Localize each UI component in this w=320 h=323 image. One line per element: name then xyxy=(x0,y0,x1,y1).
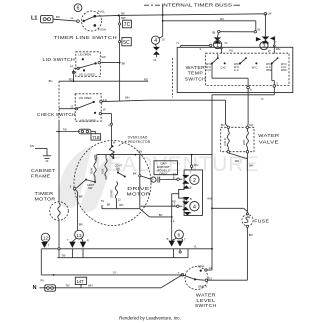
svg-text:BR: BR xyxy=(79,194,83,198)
fuse F1 xyxy=(242,213,269,228)
svg-text:B: B xyxy=(173,176,175,180)
cam switch 2 xyxy=(173,171,199,190)
svg-text:LID OPEN: LID OPEN xyxy=(78,53,91,57)
timer motor coil xyxy=(58,203,60,219)
svg-text:TW: TW xyxy=(61,254,66,258)
svg-text:7A: 7A xyxy=(224,41,227,45)
aux winding xyxy=(100,155,107,180)
svg-text:AUX: AUX xyxy=(100,168,104,174)
svg-text:PU: PU xyxy=(229,48,233,52)
water temp switch label xyxy=(185,65,206,81)
svg-text:BR: BR xyxy=(79,223,83,227)
svg-text:TEMP: TEMP xyxy=(188,71,204,76)
cabinet frame label xyxy=(31,168,56,179)
svg-text:13: 13 xyxy=(209,276,212,280)
BU drop to valve xyxy=(221,100,228,127)
timer line switch (dashed circle) xyxy=(82,11,102,31)
svg-text:LW: LW xyxy=(268,12,272,16)
svg-text:B: B xyxy=(190,186,192,190)
svg-text:LID SWITCH: LID SWITCH xyxy=(43,57,76,62)
svg-text:GN: GN xyxy=(30,144,34,148)
5B link wire xyxy=(212,27,261,34)
svg-text:3: 3 xyxy=(263,44,266,50)
check switch box xyxy=(75,94,101,121)
motor left node BR xyxy=(70,184,83,230)
svg-text:YL: YL xyxy=(194,245,198,249)
lid switch contacts xyxy=(72,53,106,77)
centrifugal switch lower xyxy=(76,179,96,191)
svg-text:BK: BK xyxy=(159,213,163,217)
svg-text:14T: 14T xyxy=(77,279,85,284)
water valve box xyxy=(221,127,254,151)
svg-text:2: 2 xyxy=(193,178,196,184)
wire into fuse from V1 xyxy=(211,207,247,211)
wire RD 2.2 feed xyxy=(141,205,177,207)
cam switch 6 (bottom) xyxy=(167,230,186,247)
svg-text:12: 12 xyxy=(153,58,156,62)
cam switch 13 (bottom) xyxy=(67,230,89,248)
svg-text:DRIVE: DRIVE xyxy=(127,186,150,191)
temp switch internal wiring to node 6 xyxy=(212,63,248,86)
svg-text:WH: WH xyxy=(249,164,254,168)
svg-text:W-C: W-C xyxy=(252,65,257,69)
water valve label xyxy=(258,133,279,144)
svg-text:GN: GN xyxy=(249,123,253,127)
svg-text:B: B xyxy=(190,197,192,201)
svg-text:Rendered by Leadventure, Inc.: Rendered by Leadventure, Inc. xyxy=(119,315,181,320)
terminal box 5C xyxy=(119,38,132,46)
svg-text:3.2: 3.2 xyxy=(171,219,175,223)
svg-text:PROTECTOR: PROTECTOR xyxy=(128,140,151,144)
svg-text:VALVE: VALVE xyxy=(259,139,279,144)
svg-text:TIMER: TIMER xyxy=(35,191,54,196)
svg-text:TIMER LINE SWITCH: TIMER LINE SWITCH xyxy=(54,35,117,40)
svg-text:LID CLOSED: LID CLOSED xyxy=(79,73,95,77)
BU feeder wire xyxy=(162,17,256,32)
bus line B xyxy=(57,254,188,258)
wire lid switch pivot left and down xyxy=(70,64,77,82)
diagonal wire pivot to bottom bus xyxy=(161,275,182,288)
svg-text:71B: 71B xyxy=(92,135,100,140)
svg-text:7C: 7C xyxy=(124,22,131,28)
wire RD below lid switch xyxy=(59,77,148,81)
run winding xyxy=(89,155,96,182)
temp switch contact set xyxy=(206,54,287,72)
hot solenoid xyxy=(242,126,248,153)
timer motor feed wires xyxy=(58,132,60,258)
svg-text:5b: 5b xyxy=(257,27,260,31)
drive motor dashed circle xyxy=(74,141,151,226)
cam 4 contact triangles xyxy=(153,44,160,62)
motor frame right edge xyxy=(139,155,141,209)
svg-text:3T: 3T xyxy=(268,49,271,53)
svg-text:N: N xyxy=(33,285,37,291)
svg-text:PU: PU xyxy=(40,278,44,282)
junction node xyxy=(118,14,120,16)
svg-text:WH: WH xyxy=(194,163,199,167)
svg-text:C=C: C=C xyxy=(206,68,212,72)
svg-text:C=C: C=C xyxy=(221,65,227,69)
water temp switch contact box (dashed) xyxy=(206,53,289,85)
water level switch contacts xyxy=(178,264,213,289)
svg-text:4: 4 xyxy=(154,38,157,44)
capacitor C1 xyxy=(151,172,177,182)
node 6 (temp switch bottom) xyxy=(247,86,252,91)
V1 long vertical YL xyxy=(207,87,274,270)
svg-text:LID OPEN: LID OPEN xyxy=(79,96,92,100)
wire BK 3.2 feed xyxy=(140,209,175,223)
motor BK terminal node xyxy=(133,172,141,177)
node under cam 6 xyxy=(179,249,181,253)
cam switch 4 (top) xyxy=(151,36,165,44)
inter-cam contact triangles xyxy=(183,185,190,200)
svg-text:BK: BK xyxy=(133,172,137,176)
valve output merge WH xyxy=(228,153,253,213)
fuse output wire BR xyxy=(208,228,253,281)
motor small labels xyxy=(101,197,124,207)
svg-text:RD: RD xyxy=(119,203,123,207)
svg-text:WH: WH xyxy=(125,96,130,100)
svg-text:TU: TU xyxy=(101,199,105,203)
node 5 (temp switch bottom) xyxy=(273,82,279,88)
WH wire from check switch to valve drop xyxy=(102,96,225,102)
check switch contacts xyxy=(75,96,107,123)
terminal box 71B xyxy=(91,134,101,140)
svg-text:MOTOR: MOTOR xyxy=(127,192,151,197)
wire L1 to timer line switch, BK xyxy=(53,15,77,21)
timer motor dashed circle xyxy=(50,202,69,221)
svg-text:12: 12 xyxy=(118,197,121,201)
svg-text:RD: RD xyxy=(144,77,148,81)
svg-text:W/W: W/W xyxy=(281,68,287,72)
start winding xyxy=(109,181,117,208)
svg-text:B: B xyxy=(167,237,169,241)
bus drop vertical to cam 4 xyxy=(162,5,164,36)
wire check switch lower contact, YL xyxy=(102,114,116,147)
cabinet frame ground symbol xyxy=(43,156,51,161)
timer line switch contacts PULL/PUSH xyxy=(83,10,106,32)
svg-text:BK: BK xyxy=(56,15,60,19)
terminal box 7C xyxy=(119,20,132,28)
node L1 terminal xyxy=(77,20,80,23)
svg-text:WH: WH xyxy=(235,159,240,163)
svg-text:CHECK SWITCH: CHECK SWITCH xyxy=(37,112,76,117)
connector P2 xyxy=(45,285,56,291)
watermark leaf logo xyxy=(59,145,115,212)
water level switch label xyxy=(195,293,217,308)
svg-text:13: 13 xyxy=(209,266,212,270)
terminal box 14T xyxy=(75,277,86,288)
svg-text:FRAME: FRAME xyxy=(31,174,51,179)
bus line B legs xyxy=(72,249,188,258)
left drop from bus A xyxy=(40,249,44,283)
water level switch dashed circle xyxy=(185,267,208,290)
svg-text:L1: L1 xyxy=(31,16,37,22)
svg-text:RUN: RUN xyxy=(89,168,93,174)
svg-text:ONLY: ONLY xyxy=(159,172,167,176)
svg-text:START: START xyxy=(109,189,113,198)
svg-text:WH: WH xyxy=(207,197,212,201)
svg-text:INTERNAL TIMER BUSS: INTERNAL TIMER BUSS xyxy=(162,2,233,7)
svg-text:WATER: WATER xyxy=(258,133,279,138)
svg-text:RD: RD xyxy=(69,77,73,81)
cold solenoid xyxy=(223,126,229,153)
svg-text:YL: YL xyxy=(108,124,112,128)
block top node WH xyxy=(190,154,198,170)
svg-text:FUSE: FUSE xyxy=(254,218,269,223)
svg-text:SWITCH: SWITCH xyxy=(195,303,217,308)
wire W1 to LW node xyxy=(119,14,266,16)
svg-text:+: + xyxy=(152,178,154,182)
cam switch 12 (bottom) xyxy=(41,233,50,248)
bus line C GY xyxy=(41,270,181,275)
connector P1 xyxy=(41,15,54,22)
svg-text:EMPTY: EMPTY xyxy=(198,285,207,289)
wire check switch pivot to BU drop, 12 xyxy=(59,104,75,108)
bus line A xyxy=(41,245,213,250)
svg-text:W/W: W/W xyxy=(266,68,272,72)
vertical feed to bottom cam 6 xyxy=(172,194,179,241)
svg-text:CABINET: CABINET xyxy=(31,168,56,173)
svg-text:BK: BK xyxy=(122,61,126,65)
centrifugal switch upper xyxy=(115,163,126,177)
cam switch 1 cluster xyxy=(214,33,234,54)
motor bottom rail xyxy=(102,208,140,210)
svg-text:WH: WH xyxy=(138,150,143,154)
svg-text:6: 6 xyxy=(77,6,80,12)
svg-text:R: R xyxy=(87,239,89,243)
svg-text:6: 6 xyxy=(178,233,181,238)
svg-text:C-C: C-C xyxy=(234,68,239,72)
svg-text:COLD: COLD xyxy=(223,138,227,146)
svg-text:BW: BW xyxy=(121,16,126,20)
GN drop to valve xyxy=(247,89,253,128)
svg-text:BR: BR xyxy=(249,233,253,237)
wire switch to junction xyxy=(95,14,119,17)
motor top rail WH xyxy=(97,150,212,160)
svg-text:WATER: WATER xyxy=(186,65,206,70)
svg-text:FULL: FULL xyxy=(198,264,205,268)
svg-text:L2: L2 xyxy=(70,64,73,68)
svg-text:MOTOR: MOTOR xyxy=(35,196,56,201)
svg-text:TW: TW xyxy=(65,284,70,288)
svg-text:SW: SW xyxy=(88,186,93,190)
svg-text:5C: 5C xyxy=(123,40,130,46)
internal timer buss line xyxy=(144,2,240,7)
cam badge 6 (timer line switch) xyxy=(74,4,82,12)
svg-text:SW: SW xyxy=(116,166,121,170)
node LW xyxy=(264,13,267,16)
temp switch internal wiring to node 5 xyxy=(272,63,275,84)
overload protector element xyxy=(110,145,115,159)
svg-text:TW: TW xyxy=(63,127,68,131)
svg-text:12: 12 xyxy=(70,104,73,108)
svg-text:10: 10 xyxy=(162,37,165,41)
water temp switch outer box xyxy=(177,47,293,92)
cam 2/4 block frame xyxy=(179,170,203,216)
svg-text:PUSH: PUSH xyxy=(98,27,106,31)
svg-text:WH: WH xyxy=(88,284,93,288)
svg-text:YL: YL xyxy=(261,97,265,101)
svg-text:LID CLOSED: LID CLOSED xyxy=(80,119,96,123)
overload protector label with leader xyxy=(118,136,151,146)
svg-text:PULL: PULL xyxy=(98,10,106,14)
wire motor BK to cap node xyxy=(141,176,151,179)
svg-text:GY: GY xyxy=(113,270,117,274)
svg-text:YL: YL xyxy=(176,41,180,45)
ground wire GN xyxy=(30,144,47,156)
cam switch 4 (lower) xyxy=(172,197,199,215)
triangle below cam 4 xyxy=(184,212,191,216)
timer motor label xyxy=(35,191,56,202)
main vertical from junction xyxy=(119,15,121,100)
svg-text:HOT: HOT xyxy=(242,139,246,145)
svg-text:BK: BK xyxy=(107,203,111,207)
svg-text:12: 12 xyxy=(43,236,49,241)
svg-text:5B: 5B xyxy=(212,30,215,34)
cam switch 3 cluster xyxy=(256,14,281,54)
lid switch box xyxy=(76,52,101,77)
BU dashed drop at check switch xyxy=(49,79,59,131)
timer boundary dash line xyxy=(172,58,174,98)
wire lid switch to main vertical, BK xyxy=(100,61,125,65)
drive motor label xyxy=(127,186,151,197)
svg-text:SW: SW xyxy=(101,55,106,59)
bus line D neutral xyxy=(40,284,162,288)
svg-text:4: 4 xyxy=(193,204,196,210)
svg-text:BU: BU xyxy=(220,17,224,21)
svg-text:BU: BU xyxy=(49,79,53,83)
svg-text:L1: L1 xyxy=(71,16,74,20)
check switch bottom wire with connector xyxy=(56,127,96,133)
cap export models only box xyxy=(154,161,178,176)
svg-text:13: 13 xyxy=(76,233,82,238)
svg-text:SWITCH: SWITCH xyxy=(185,76,206,81)
YL wire to cam 1 xyxy=(176,41,212,51)
svg-text:BU: BU xyxy=(221,123,225,127)
